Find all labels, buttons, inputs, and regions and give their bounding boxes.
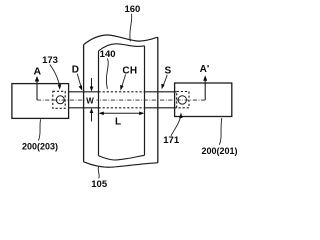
svg-text:173: 173 [42,55,58,66]
gate line 160 outer band left edge [83,45,85,162]
channel region top edge (dashed) [99,91,145,93]
source arm top edge (solid) [145,91,177,93]
section arrow A' vertical line [204,80,206,101]
contact hole 171 dashed square [177,92,189,108]
channel region bottom edge (dashed) [99,107,145,109]
gate electrode 140 top break wave [99,44,145,51]
source electrode 200(201) rectangle [175,83,232,117]
contact hole 173 circle [56,96,64,104]
svg-text:A': A' [200,64,210,75]
section arrow A vertical line [36,80,38,101]
drain arm bottom edge (solid) [69,107,99,109]
leader arrow for 171 [171,118,180,136]
dimension W upper arrow [91,78,93,89]
contact hole 173 dashed square [53,91,65,108]
gate line 160 top break wave [84,35,158,45]
contact hole 171 circle [178,96,186,104]
svg-text:160: 160 [124,4,140,15]
section arrow A' head [203,75,207,81]
svg-text:L: L [115,116,121,127]
svg-text:140: 140 [100,49,116,60]
leader arrow for CH [122,75,126,87]
leader for 200(203) [38,119,40,140]
svg-text:S: S [164,66,171,77]
dimension W lower arrow [91,111,93,122]
svg-text:171: 171 [163,135,180,146]
gate electrode 140 inner band right edge [144,46,146,156]
section arrow A head [35,76,39,82]
svg-text:D: D [72,65,79,76]
leader for 105 [98,167,99,179]
leader for 200(201) [219,118,222,145]
leader for 160 [130,14,132,42]
svg-text:200(201): 200(201) [201,146,237,156]
leader for 140 [106,59,108,89]
svg-text:CH: CH [122,66,137,77]
gate line 160 bottom break wave [84,162,158,167]
svg-text:A: A [34,65,42,77]
leader arrow for D [77,74,81,86]
svg-text:200(203): 200(203) [22,142,58,152]
svg-text:W: W [86,97,94,106]
drain electrode 200(203) rectangle [12,84,69,119]
drain arm top edge (solid) [69,91,99,93]
gate electrode 140 inner band left edge [98,51,100,156]
leader arrow for S [163,75,167,86]
dimension L double arrow [100,112,143,114]
leader arrow for 173 [50,65,60,86]
source arm bottom edge (solid) [145,107,177,109]
gate electrode 140 bottom break wave [99,155,145,160]
white patch behind W label [87,96,97,106]
svg-text:105: 105 [91,179,108,190]
section line A-A' (dash-dot) [37,99,205,101]
gate line 160 outer band right edge [157,37,159,163]
